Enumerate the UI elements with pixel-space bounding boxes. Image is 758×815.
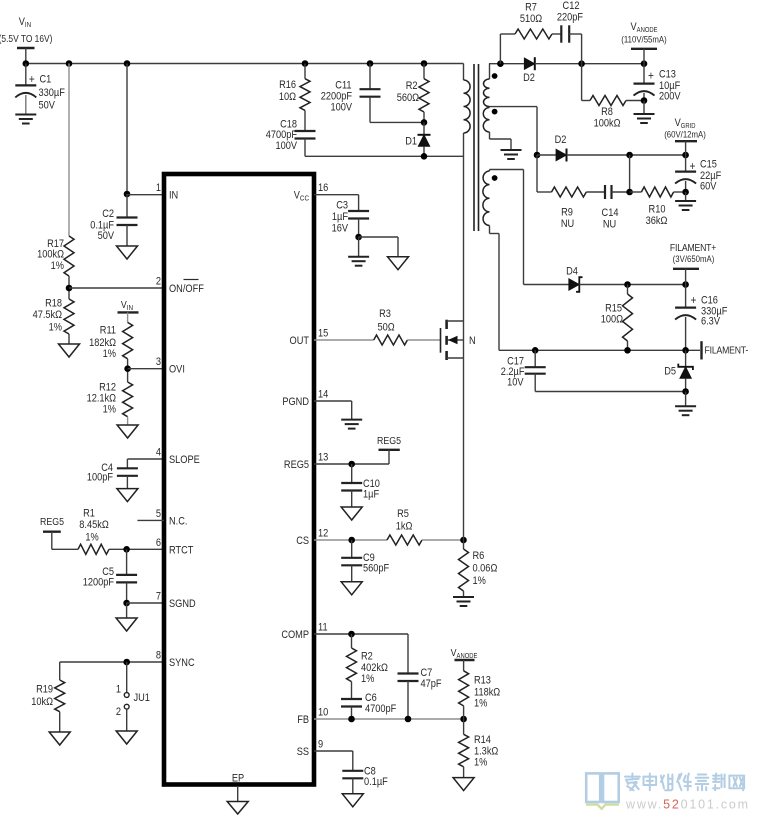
svg-text:10Ω: 10Ω — [279, 91, 297, 103]
svg-text:COMP: COMP — [281, 629, 309, 641]
svg-text:R5: R5 — [397, 508, 409, 520]
junction clamp node — [421, 119, 428, 126]
node REG5 at R1 — [40, 516, 64, 531]
capacitor C11 — [321, 64, 381, 123]
ground C3 — [348, 257, 369, 266]
capacitor C4 — [87, 462, 138, 488]
svg-text:REG5: REG5 — [284, 459, 309, 471]
wire R9-C14 — [586, 191, 605, 193]
wire clamp bottom row — [305, 155, 464, 157]
node VANODE at R13 — [451, 647, 478, 660]
junction grid node A — [626, 152, 633, 159]
svg-text:C15: C15 — [700, 159, 717, 171]
junction CS sense node — [460, 537, 467, 544]
resistor R2 clamp — [397, 64, 429, 123]
wire drain-source vertical — [463, 321, 465, 540]
junction rail-R2 — [421, 60, 428, 67]
svg-text:100V: 100V — [330, 102, 352, 114]
wire winding3 bottom lead — [490, 226, 500, 351]
wire tap down to D2 — [536, 107, 538, 155]
resistor R18 — [33, 298, 74, 334]
svg-text:C3: C3 — [336, 200, 348, 212]
ground C15 — [675, 201, 696, 210]
svg-text:FILAMENT-: FILAMENT- — [705, 345, 749, 357]
node FILAMENT+ terminal — [670, 242, 717, 284]
svg-text:C2: C2 — [102, 208, 114, 220]
svg-text:1: 1 — [116, 684, 121, 696]
diode D2 anode-top — [523, 57, 535, 84]
capacitor C2 — [90, 194, 137, 246]
capacitor C13 — [634, 64, 681, 103]
wire R11-pin3 — [127, 359, 129, 382]
wire D2 to clamp node — [535, 63, 644, 65]
resistor R12 — [87, 382, 133, 417]
junction pin13 — [348, 461, 355, 468]
svg-text:1%: 1% — [474, 757, 487, 769]
svg-text:www.520101.com: www.520101.com — [625, 798, 750, 812]
svg-text:PGND: PGND — [282, 396, 309, 408]
capacitor C15 — [675, 155, 721, 193]
svg-text:C1: C1 — [40, 74, 52, 86]
wire pin11 COMP — [314, 633, 408, 635]
svg-text:10kΩ: 10kΩ — [31, 696, 53, 708]
svg-text:OVI: OVI — [169, 364, 185, 376]
ground C13 — [634, 114, 655, 123]
junction R15 bottom — [624, 347, 631, 354]
svg-text:1µF: 1µF — [363, 489, 379, 501]
svg-text:C13: C13 — [659, 69, 676, 81]
node VANODE terminal — [621, 21, 667, 63]
svg-text:R3: R3 — [379, 308, 391, 320]
ground JU1 — [116, 731, 137, 744]
junction D2-R8 — [578, 60, 585, 67]
resistor R10 — [630, 187, 686, 227]
node FILAMENT- terminal — [702, 341, 749, 359]
junction rail-C11 — [367, 60, 374, 67]
svg-text:4700pF: 4700pF — [365, 703, 396, 715]
node VIN at R11 — [118, 299, 139, 312]
svg-text:R10: R10 — [649, 204, 666, 216]
resistor R8 — [590, 96, 626, 130]
svg-text:4: 4 — [156, 447, 161, 459]
svg-text:100kΩ: 100kΩ — [594, 118, 621, 130]
svg-text:D2: D2 — [555, 134, 567, 146]
svg-text:RTCT: RTCT — [169, 545, 193, 557]
wire C17 bottom row — [535, 391, 685, 393]
junction FB-R13R14 — [460, 716, 467, 723]
capacitor C1 — [15, 64, 65, 115]
svg-text:0.1µF: 0.1µF — [364, 776, 388, 788]
resistor R11 — [89, 322, 132, 360]
wire pin16 Vcc — [314, 195, 359, 211]
capacitor C3 — [332, 200, 369, 237]
ground R6 — [453, 597, 474, 606]
junction pin2 node — [66, 285, 73, 292]
watermark book logo — [586, 773, 619, 808]
wire pin4 SLOPE — [127, 459, 164, 468]
svg-text:EP: EP — [232, 773, 245, 785]
svg-text:16V: 16V — [332, 223, 349, 235]
wire R7 branch up — [500, 34, 515, 64]
wire C11-D1 node — [370, 121, 424, 123]
svg-text:1: 1 — [156, 183, 161, 195]
svg-text:SGND: SGND — [169, 598, 196, 610]
svg-text:ON/OFF: ON/OFF — [169, 283, 204, 295]
ground R19 — [49, 732, 70, 745]
watermark url — [625, 798, 750, 812]
wire EP pad — [237, 786, 239, 802]
wire D4 out — [579, 284, 685, 286]
svg-text:C14: C14 — [602, 207, 619, 219]
svg-text:3: 3 — [156, 357, 161, 369]
node REG5 at pin13 — [377, 435, 401, 449]
svg-text:1%: 1% — [474, 698, 487, 710]
junction VANODE node — [641, 60, 648, 67]
junction rail-VIN — [23, 60, 30, 67]
svg-text:330µF: 330µF — [39, 87, 65, 99]
junction C15 bottom — [682, 189, 689, 196]
svg-text:47.5kΩ: 47.5kΩ — [33, 309, 63, 321]
svg-text:(60V/12mA): (60V/12mA) — [664, 129, 706, 140]
svg-text:100Ω: 100Ω — [601, 314, 624, 326]
svg-text:C12: C12 — [563, 0, 580, 12]
wire C15-gnd — [685, 192, 687, 201]
ground triangle near C3 — [388, 257, 409, 270]
junction FILAMENT- node — [682, 347, 689, 354]
node VIN input terminal — [0, 16, 52, 63]
wire R8 branch — [582, 64, 590, 101]
svg-text:11: 11 — [318, 622, 328, 634]
svg-text:1%: 1% — [361, 673, 374, 685]
svg-text:(110V/55mA): (110V/55mA) — [621, 34, 667, 45]
junction D2 grid anode — [534, 152, 541, 159]
svg-text:1%: 1% — [473, 575, 486, 587]
wire rail to pin1 — [126, 64, 128, 195]
junction VGRID node — [682, 152, 689, 159]
watermark site name — [625, 774, 744, 791]
svg-text:N.C.: N.C. — [169, 516, 187, 528]
capacitor C12 — [557, 0, 583, 42]
junction pin3 — [124, 365, 131, 372]
wire winding2 bottom lead — [490, 132, 512, 150]
wire VIN-R11 — [127, 312, 129, 322]
svg-text:R9: R9 — [561, 207, 573, 219]
capacitor C9 — [341, 540, 389, 582]
svg-text:1µF: 1µF — [332, 211, 348, 223]
svg-text:1%: 1% — [103, 348, 116, 360]
capacitor C18 — [266, 110, 316, 156]
junction pin6 — [123, 546, 130, 553]
svg-text:NU: NU — [561, 218, 574, 230]
svg-text:36kΩ: 36kΩ — [646, 215, 668, 227]
wire C14-nodeA — [612, 191, 630, 193]
svg-text:R16: R16 — [279, 79, 296, 91]
svg-text:6: 6 — [156, 537, 161, 549]
svg-text:R19: R19 — [36, 684, 53, 696]
svg-text:R14: R14 — [474, 734, 491, 746]
resistor R19 — [31, 662, 64, 732]
svg-text:1kΩ: 1kΩ — [396, 521, 413, 533]
resistor R2 comp — [347, 634, 389, 685]
svg-text:R6: R6 — [473, 550, 485, 562]
ground C4 — [117, 489, 138, 502]
junction pin12 — [348, 537, 355, 544]
wire secondary1 top lead — [489, 64, 524, 79]
svg-text:50V: 50V — [98, 230, 115, 242]
junction FB-C6 — [348, 716, 355, 723]
transformer T1 primary winding — [464, 80, 471, 133]
ground C8 — [342, 794, 363, 807]
wire D5-gnd — [685, 392, 687, 407]
diode D1 — [405, 122, 430, 156]
transformer T1 secondary winding 2 — [483, 108, 489, 133]
wire R3-gate — [407, 339, 440, 341]
svg-text:220pF: 220pF — [557, 12, 583, 24]
resistor R7 — [515, 2, 552, 39]
wire R7-C12 — [552, 33, 561, 35]
transformer T1 secondary winding 1 — [483, 79, 489, 107]
svg-text:0.06Ω: 0.06Ω — [473, 563, 498, 575]
wire R8-C13 bottom — [626, 100, 644, 102]
wire R5-R6 — [422, 539, 464, 541]
diode D4 — [524, 266, 583, 292]
wire D4 feed — [523, 170, 525, 285]
svg-text:R7: R7 — [525, 2, 537, 14]
svg-text:510Ω: 510Ω — [520, 13, 543, 25]
ground EP — [227, 802, 248, 815]
svg-text:D2: D2 — [523, 72, 535, 84]
op-amp U1 controller outline — [164, 174, 314, 785]
svg-text:16: 16 — [318, 183, 329, 195]
junction R7 branch — [497, 60, 504, 67]
wire C3-gnd — [358, 237, 360, 257]
svg-text:2: 2 — [156, 276, 161, 288]
svg-text:D1: D1 — [405, 136, 417, 148]
capacitor C16 — [675, 285, 727, 351]
svg-text:100V: 100V — [275, 140, 297, 152]
svg-text:IN: IN — [169, 190, 178, 202]
svg-text:REG5: REG5 — [377, 435, 401, 447]
svg-text:60V: 60V — [700, 181, 717, 193]
svg-text:N: N — [469, 335, 476, 347]
svg-text:OUT: OUT — [290, 335, 309, 347]
svg-text:+: + — [29, 73, 35, 86]
wire C13-gnd — [643, 101, 645, 115]
junction rail-R16 — [302, 60, 309, 67]
svg-text:47pF: 47pF — [421, 678, 442, 690]
resistor R16 — [279, 64, 310, 111]
junction C3 ground node — [355, 234, 362, 241]
wire R17-R18 — [68, 276, 70, 299]
svg-text:R13: R13 — [474, 675, 491, 687]
transformer T1 secondary winding 3 — [483, 171, 490, 226]
phase dot winding1 — [492, 73, 498, 79]
svg-text:R11: R11 — [100, 325, 117, 337]
junction rail-R17 — [66, 60, 73, 67]
ground C2 — [117, 246, 138, 259]
svg-text:(5.5V TO 16V): (5.5V TO 16V) — [0, 33, 52, 44]
svg-text:R18: R18 — [45, 298, 62, 310]
svg-text:R8: R8 — [601, 106, 613, 118]
junction pin1 — [124, 191, 131, 198]
capacitor C8 — [342, 766, 387, 794]
junction C13 bottom — [641, 97, 648, 104]
svg-text:D5: D5 — [664, 366, 676, 378]
diode D5 zener — [664, 350, 693, 391]
phase dot winding2 — [492, 109, 498, 115]
wire pin7 SGND — [127, 602, 164, 604]
svg-text:(3V/650mA): (3V/650mA) — [673, 253, 715, 264]
svg-text:8: 8 — [156, 650, 161, 662]
wire R18-gnd — [68, 334, 70, 344]
svg-text:D4: D4 — [566, 266, 578, 278]
wire pin7-gnd — [126, 603, 128, 618]
svg-text:50V: 50V — [39, 100, 56, 112]
wire pin9 SS — [314, 751, 353, 771]
svg-text:100pF: 100pF — [87, 472, 113, 484]
svg-text:200V: 200V — [659, 91, 681, 103]
svg-text:REG5: REG5 — [40, 516, 64, 528]
svg-text:R1: R1 — [83, 508, 95, 520]
wire R12-gnd — [127, 417, 129, 425]
svg-text:FB: FB — [297, 714, 309, 726]
junction D1 anode — [421, 153, 428, 160]
junction rail-pin1 — [124, 60, 131, 67]
node VGRID terminal — [664, 117, 706, 155]
wire C3 node to triangle gnd — [359, 237, 398, 257]
wire R9 branch — [537, 155, 552, 192]
svg-text:10: 10 — [318, 707, 329, 719]
svg-text:SS: SS — [297, 746, 310, 758]
wire pin1 IN — [127, 194, 164, 196]
ground SGND — [116, 618, 137, 631]
ground C9 — [341, 582, 362, 595]
svg-text:10V: 10V — [507, 377, 524, 389]
resistor R9 — [552, 187, 587, 230]
transformer core — [474, 64, 479, 231]
junction nodeA bottom — [626, 189, 633, 196]
svg-text:1200pF: 1200pF — [83, 577, 114, 589]
capacitor C14 — [602, 185, 619, 231]
wire primary top — [463, 64, 465, 81]
svg-text:7: 7 — [156, 591, 161, 603]
resistor R3 — [374, 308, 408, 345]
jumper JU1 — [116, 662, 150, 731]
wire D2 grid out — [567, 154, 686, 156]
svg-text:560Ω: 560Ω — [397, 92, 420, 104]
svg-text:560pF: 560pF — [363, 563, 389, 575]
resistor R13 — [459, 660, 501, 719]
svg-text:R2: R2 — [361, 651, 373, 663]
capacitor C5 — [83, 549, 137, 603]
svg-text:1%: 1% — [51, 260, 64, 272]
wire top VIN rail — [26, 63, 464, 65]
wire primary bottom to drain — [463, 133, 465, 321]
wire FILAMENT- row — [499, 349, 700, 351]
ground filament — [675, 406, 696, 415]
wire pin10 FB — [314, 718, 464, 720]
wire pin14 PGND — [314, 401, 352, 420]
svg-text:6.3V: 6.3V — [701, 316, 720, 328]
svg-text:+: + — [690, 160, 696, 173]
svg-text:2: 2 — [116, 706, 121, 718]
svg-text:50Ω: 50Ω — [377, 322, 395, 334]
junction FILAMENT+ node — [682, 281, 689, 288]
capacitor C10 — [341, 464, 380, 507]
svg-text:9: 9 — [318, 739, 323, 751]
svg-text:SLOPE: SLOPE — [169, 454, 200, 466]
wire pin12 CS — [314, 539, 387, 541]
ground C1 — [15, 115, 36, 124]
wire winding3 top lead — [490, 170, 524, 172]
wire pin15 OUT — [314, 339, 374, 341]
resistor R6 — [459, 540, 498, 597]
svg-text:R2: R2 — [406, 80, 418, 92]
transistor Q1 N-MOSFET — [441, 320, 476, 360]
phase dot winding3 — [492, 175, 498, 181]
junction pin7 — [123, 600, 130, 607]
ground R18 — [59, 344, 80, 357]
ground secondary common — [501, 150, 522, 159]
wire REG5-R1 — [52, 532, 78, 550]
svg-text:+: + — [691, 294, 697, 307]
svg-text:100kΩ: 100kΩ — [37, 249, 64, 261]
svg-text:13: 13 — [318, 452, 329, 464]
svg-text:SYNC: SYNC — [169, 657, 195, 669]
wire nodeA vertical — [629, 155, 631, 192]
junction R15 top — [624, 281, 631, 288]
capacitor C7 — [398, 634, 442, 719]
junction FB-C7 — [405, 716, 412, 723]
resistor R17 — [37, 236, 74, 276]
resistor R15 — [601, 285, 633, 351]
wire pin8 SYNC — [60, 661, 164, 663]
capacitor C17 — [501, 350, 546, 391]
pin 5 NC stub — [137, 519, 164, 521]
resistor R5 — [387, 508, 422, 545]
IC pin labels — [156, 183, 329, 785]
wire R17 feed — [68, 64, 70, 237]
svg-text:5: 5 — [156, 508, 161, 520]
junction pin8 — [123, 659, 130, 666]
svg-text:NU: NU — [603, 219, 616, 231]
wire winding1 tap — [490, 106, 538, 108]
svg-text:15: 15 — [318, 328, 329, 340]
wire pin3 OVI — [128, 368, 164, 370]
svg-text:1%: 1% — [103, 404, 116, 416]
svg-text:JU1: JU1 — [134, 692, 151, 704]
svg-text:1%: 1% — [49, 322, 62, 334]
ground R12 — [117, 425, 138, 438]
svg-text:8.45kΩ: 8.45kΩ — [79, 519, 109, 531]
wire C12 down — [568, 34, 582, 64]
junction C17 top — [532, 347, 539, 354]
svg-text:14: 14 — [318, 389, 329, 401]
ground PGND — [341, 420, 362, 429]
wire pin2 ON/OFF — [69, 287, 164, 289]
svg-text:CS: CS — [296, 535, 309, 547]
diode D2 grid — [537, 134, 567, 161]
junction D5 bottom — [682, 388, 689, 395]
resistor R14 — [459, 719, 499, 778]
svg-text:+: + — [648, 70, 654, 83]
junction pin11 — [348, 631, 355, 638]
ground R14 — [453, 778, 474, 791]
capacitor C6 — [341, 682, 396, 719]
wire R1-pin6 — [109, 548, 164, 550]
svg-text:12: 12 — [318, 528, 329, 540]
resistor R1 — [78, 508, 109, 554]
